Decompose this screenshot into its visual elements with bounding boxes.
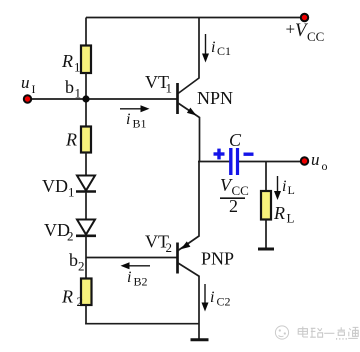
wire VD2 to R2 (through node b2) [85, 236, 87, 279]
svg-text:2: 2 [78, 259, 85, 274]
wire left column top (rail to R1) [85, 18, 87, 47]
ground (main) [191, 338, 209, 341]
transistor VT1 collector [178, 18, 199, 94]
svg-text:b: b [69, 250, 78, 270]
svg-text:2: 2 [77, 294, 84, 309]
svg-text:PNP: PNP [201, 249, 234, 269]
current arrow iC1 [202, 34, 209, 63]
svg-text:i: i [210, 289, 214, 306]
svg-text:1: 1 [74, 60, 81, 75]
capacitor C [231, 148, 238, 175]
svg-text:u: u [311, 150, 320, 169]
wire bottom rail [85, 323, 199, 325]
label iC2 [210, 289, 231, 309]
watermark icon [275, 326, 288, 339]
svg-text:C2: C2 [217, 295, 231, 309]
svg-text:i: i [211, 39, 215, 56]
svg-text:B1: B1 [133, 117, 147, 131]
watermark text 电路一点通 [298, 327, 358, 340]
wire output node to capacitor [198, 161, 230, 163]
label C [229, 130, 242, 150]
wire capacitor to output terminal [239, 161, 301, 163]
label NPN [197, 88, 233, 108]
wire R1 to R (through node b1) [85, 73, 87, 127]
svg-text:1: 1 [166, 81, 173, 96]
label R1 [61, 51, 81, 75]
label iC1 [211, 39, 231, 58]
svg-text:VD: VD [42, 176, 68, 196]
resistor R1 [81, 46, 91, 74]
power terminal +VCC [301, 14, 308, 21]
label b2 [69, 250, 85, 274]
svg-text:o: o [322, 159, 328, 173]
wire RL to ground [265, 220, 267, 249]
svg-text:u: u [21, 73, 30, 92]
current arrow iB2 [121, 262, 151, 269]
wire VD1 to VD2 [85, 192, 87, 220]
resistor R2 [81, 279, 92, 306]
transistor VT1 base bar [176, 83, 179, 114]
wire R2 to bottom rail [85, 305, 87, 325]
transistor VT2 base bar [176, 243, 179, 274]
svg-text:NPN: NPN [197, 88, 233, 108]
wire RL branch [265, 162, 267, 192]
svg-text:CC: CC [307, 29, 324, 44]
wire bottom rail to ground [198, 276, 200, 339]
wire top rail VCC [86, 17, 301, 19]
current arrow iC2 [202, 284, 209, 312]
node b1 junction dot [82, 95, 89, 102]
label VT1 [145, 72, 172, 96]
label VD2 [44, 220, 74, 244]
label VD1 [42, 176, 75, 200]
current arrow iL [274, 176, 281, 200]
svg-text:B2: B2 [134, 275, 148, 289]
svg-text:C1: C1 [217, 44, 231, 58]
svg-text:i: i [127, 269, 131, 286]
svg-text:2: 2 [166, 240, 173, 255]
transistor VT2 emitter with arrow [178, 161, 199, 251]
ground (RL) [258, 248, 274, 251]
wire input u_i to VT1 base [28, 98, 177, 100]
capacitor polarity plus [214, 149, 225, 160]
svg-text:L: L [288, 183, 295, 197]
input terminal u_i [24, 95, 31, 102]
label R2 [61, 287, 83, 310]
diode VD2 [76, 220, 96, 236]
svg-text:1: 1 [75, 86, 82, 101]
label iB1 [126, 111, 147, 131]
label iB2 [127, 269, 148, 289]
svg-text:L: L [287, 211, 295, 226]
transistor VT1 emitter with arrow [178, 103, 200, 162]
transistor VT2 collector [178, 263, 200, 277]
wire node b2 to VT2 base [86, 257, 177, 259]
label VT2 [145, 232, 172, 256]
label R [65, 130, 77, 150]
svg-text:2: 2 [229, 196, 238, 216]
svg-text:i: i [282, 178, 286, 195]
label +VCC [286, 20, 325, 45]
label RL [273, 203, 295, 226]
svg-text:R: R [273, 203, 285, 223]
svg-text:C: C [229, 130, 242, 150]
label u_i [21, 73, 36, 96]
svg-text:2: 2 [67, 229, 74, 244]
wire R to VD1 [85, 152, 87, 176]
label VCC/2 [220, 175, 249, 216]
label PNP [201, 249, 234, 269]
resistor R [81, 127, 91, 153]
svg-text:R: R [61, 51, 73, 71]
diode VD1 [76, 176, 96, 192]
capacitor polarity minus [244, 152, 254, 155]
resistor RL [261, 191, 271, 220]
svg-text:R: R [61, 287, 73, 307]
svg-text:I: I [32, 82, 36, 96]
output terminal u_o [301, 157, 308, 164]
current arrow iB1 [120, 105, 150, 112]
label b1 [65, 77, 81, 101]
svg-text:i: i [126, 111, 130, 128]
svg-text:+: + [286, 20, 296, 39]
svg-text:b: b [65, 77, 74, 97]
svg-text:1: 1 [68, 185, 75, 200]
label u_o [311, 150, 328, 173]
svg-text:R: R [65, 130, 77, 150]
label iL [282, 178, 295, 197]
